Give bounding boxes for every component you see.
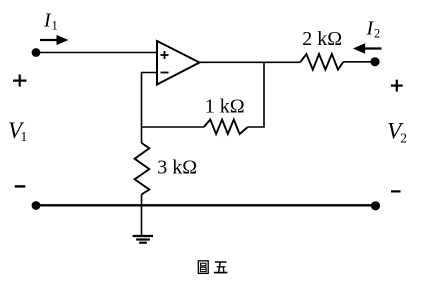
current arrow I1 [40, 35, 69, 45]
wire: 1k resistor to output node (up) [248, 62, 264, 127]
resistor 2 kOhm (output) [300, 54, 343, 70]
wire: feedback node down to 3k resistor [141, 127, 143, 143]
label + (V1 positive) [13, 75, 27, 87]
ground [133, 236, 153, 243]
svg-text:3 kΩ: 3 kΩ [157, 157, 197, 179]
svg-text:2: 2 [374, 27, 380, 41]
terminal node bottom-right (dot) [371, 201, 380, 210]
label + (V2 positive) [391, 80, 403, 92]
resistor 1 kOhm (feedback) [204, 120, 248, 135]
label - (V1 negative) [15, 185, 25, 187]
terminal node top-left (dot) [32, 48, 41, 57]
svg-text:2 kΩ: 2 kΩ [302, 28, 342, 50]
resistor 3 kOhm (vertical) [135, 143, 150, 195]
wire: 3k resistor down to ground [141, 195, 143, 237]
wire: 2k resistor to top-right terminal [343, 61, 375, 63]
terminal node bottom-left (dot) [32, 201, 41, 210]
wire: op-amp output to 2k resistor [197, 61, 300, 63]
svg-text:1: 1 [21, 129, 28, 144]
wire: feedback node to 1k resistor [142, 126, 204, 128]
caption: hanzi TU (figure) drawn as strokes [198, 261, 208, 274]
svg-text:1 kΩ: 1 kΩ [205, 95, 245, 117]
op-amp U1 [157, 41, 200, 85]
bottom rail wire [36, 204, 376, 206]
caption: hanzi WU (five) drawn as strokes [214, 262, 228, 273]
current arrow I2 [353, 43, 382, 54]
svg-text:2: 2 [400, 130, 407, 145]
wire: top-left terminal to op-amp + input [36, 52, 157, 54]
svg-text:1: 1 [52, 19, 58, 33]
terminal node top-right (dot) [370, 57, 379, 66]
wire: op-amp inverting input to feedback node [142, 73, 158, 128]
label - (V2 negative) [391, 190, 401, 192]
